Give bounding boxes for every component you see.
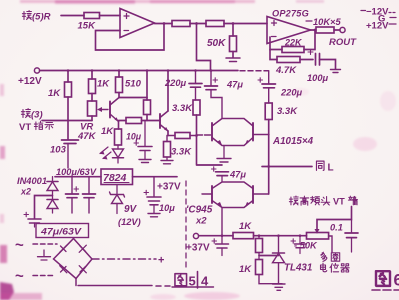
svg-text:3.3K: 3.3K [277,106,298,117]
svg-text:1K: 1K [239,264,252,275]
wire panel divider dashed [185,181,187,268]
resistor R19 1K [256,236,263,256]
label 图5|4 [172,272,214,289]
svg-text:1K: 1K [101,126,114,137]
svg-text:VT: VT [333,197,345,207]
wire input to R1 [61,15,84,17]
capacitor C4 220μ [164,71,202,101]
ground below 10μ [139,160,151,163]
resistor R20 1K [239,256,282,284]
ground below 50K [226,58,240,62]
node AC input lower [15,268,53,285]
wire R8 to 接(3) node [67,97,69,121]
label 9V (12V) [118,204,141,227]
capacitor C5 47μ [205,71,244,119]
node R3-50K junction [232,22,235,25]
resistor R7 4.7K [275,57,313,77]
label 图6 [372,271,399,290]
capacitor C3 10μ [126,121,152,160]
svg-text:x2: x2 [20,187,31,197]
node 同L junction [267,165,270,168]
svg-text:A1015×4: A1015×4 [272,136,314,147]
chassis ground [38,250,51,260]
wire lower pair bottom down [221,208,223,236]
node +12V terminal [18,68,42,87]
svg-text:47μ: 47μ [229,170,246,180]
svg-text:(3): (3) [31,110,43,121]
label 同L [316,161,333,173]
ground below TL431 [273,284,286,290]
wire bridge bottom line [76,279,172,287]
LED D1 [100,145,124,163]
wire +37V line [199,235,233,237]
wire R10 bottom node [119,93,147,98]
transistor pair A1015 upper [212,119,253,146]
diode D3 IN4001 [47,191,58,214]
node AC input upper [15,237,57,254]
wire 100μ to ground [320,60,336,70]
label -12V rail [361,7,395,18]
resistor R18 1K [233,221,254,239]
diode D2 IN4001 [47,177,58,191]
wire pot right stub [329,236,332,252]
capacitor C6 220μ [258,71,303,103]
svg-text:+12V: +12V [366,21,389,32]
capacitor C8 [212,236,229,256]
wire bridge + output [92,255,164,267]
wire junction to 50K [232,24,234,37]
svg-text:+: + [158,255,164,267]
svg-text:IN4001: IN4001 [17,176,47,186]
wire lower pair left stub [202,193,212,195]
wire diode junction to C11 [35,196,53,219]
wire supply top line [55,176,101,178]
wire R19-R20 node to TL431 [259,255,279,257]
wire U1 output [155,23,173,25]
resistor R4 50K [207,36,237,58]
svg-text:1K: 1K [97,79,110,90]
transistor Q2 [160,111,168,131]
TL431 U3 [273,236,313,284]
op-amp U2 OP275G [267,9,311,44]
svg-text:(12V): (12V) [118,217,141,227]
svg-text:4: 4 [201,274,209,289]
wire U2 feedback down [304,30,315,50]
svg-text:- 50K: - 50K [294,241,318,251]
svg-text:'C945: 'C945 [186,205,213,216]
svg-text:103: 103 [50,145,67,156]
wire Q2 collector to rail [167,71,169,112]
svg-text:15K: 15K [78,21,97,32]
regulator 7824 [101,169,133,185]
resistor R3 [206,21,267,27]
svg-text:~: ~ [15,268,24,285]
node R2-R3 junction [195,22,198,25]
svg-text:3.3K: 3.3K [171,147,192,158]
node +37V terminal [186,233,210,253]
wire rail to R8 [67,71,69,83]
resistor R15 3.3K v [164,136,171,161]
label 10K×5 [306,17,341,27]
svg-text:47μ: 47μ [226,80,243,90]
ground below 100μ [331,70,341,73]
label +37V out [157,182,181,193]
ground below C14 [148,214,160,217]
label IN4001 x2 [17,176,47,197]
label +12V rail [366,21,396,32]
wire rail to R9 [91,71,93,80]
resistor R1 15K [78,13,100,32]
label C945 x2 [186,205,213,227]
label 电位器 [321,263,350,272]
node rail junctions [67,69,213,72]
svg-text:100μ: 100μ [307,73,329,83]
svg-text:1K: 1K [239,221,252,232]
svg-text:x2: x2 [195,216,207,227]
wire lower pair right to 同L [253,193,269,195]
wire upper pair bottom to ground [223,146,225,159]
label 多圈 [321,252,340,261]
svg-text:47K: 47K [77,131,97,142]
node U1 out junction [163,22,166,25]
resistor R10 510 [116,77,142,93]
wire U2 output [311,29,317,31]
svg-text:220μ: 220μ [164,78,187,88]
resistor R16 3.3K [172,100,200,115]
svg-text:50K: 50K [207,38,226,49]
svg-text:+12V: +12V [18,76,42,87]
node 接(3) input [21,109,42,121]
svg-text:10μ: 10μ [159,203,175,213]
capacitor C1 100μ [307,50,329,84]
resistor R12 emitter [126,118,160,124]
wire rail to R11 [146,71,148,101]
transistor Q1 [110,98,119,122]
svg-text:L: L [328,163,334,174]
zener D4 9V [110,185,125,214]
wire junction down-jog to +12V rail [197,24,211,71]
svg-text:5: 5 [189,274,196,289]
capacitor C10 [291,236,306,254]
label 接高频头VT端 [289,196,357,206]
capacitor C2 103 [50,121,79,169]
wire R1 to U1 + [100,15,121,17]
svg-text:100μ/63V: 100μ/63V [56,167,97,177]
svg-text:TL431: TL431 [284,263,312,274]
op-amp U1 [120,9,155,38]
resistor R2 [172,21,206,27]
wire upper pair left base [197,134,213,136]
svg-text:10μ: 10μ [126,132,142,142]
wire Q2 emitter down [167,131,169,136]
node input 接(5)R terminal [22,11,50,23]
wire right branch down [268,120,270,195]
svg-text:(5)R: (5)R [32,12,51,23]
wire Q1 emitter node [119,121,127,130]
svg-text:+37V: +37V [157,182,181,193]
wire upper pair right base [253,134,269,136]
svg-text:1K: 1K [48,88,61,99]
svg-text:9V: 9V [124,204,138,215]
capacitor C13 filter [83,177,96,213]
resistor R6 22K [282,38,304,53]
ground below upper pair [217,159,231,163]
svg-text:ROUT: ROUT [329,37,357,48]
svg-text:47μ/63V: 47μ/63V [40,227,83,237]
potentiometer 50K [294,229,329,251]
resistor R17 3.3K [265,103,298,120]
capacitor C11 [24,212,41,227]
svg-text:10K×5: 10K×5 [313,17,341,27]
wire 同L [262,166,312,168]
label 47μ/63V box [36,224,89,238]
svg-text:+37V: +37V [186,243,210,254]
svg-text:0.1: 0.1 [330,223,343,233]
svg-text:6: 6 [394,272,399,290]
resistor R9 1K [89,79,111,94]
resistor R5 10K [316,27,340,33]
capacitor C9 0.1 [330,220,358,253]
node R14-R16 junction [195,134,198,137]
wire 7824 out [133,176,178,178]
capacitor C14 10μ [144,177,175,213]
wire 22K to inverting input [270,37,282,50]
ground below R15 [161,161,173,164]
potentiometer VR 47K [77,94,108,143]
label VT指示 [19,121,54,133]
capacitor C12 filter [66,177,79,213]
wire R16 node down [197,115,223,165]
label 100μ/63V [56,167,97,177]
svg-text:4.7K: 4.7K [275,65,297,76]
svg-text:220μ: 220μ [280,88,303,98]
label A1015×4 [272,136,314,147]
svg-text:3.3K: 3.3K [172,103,193,114]
transistor pair C945 lower [212,182,253,208]
node ROUT terminal [329,27,357,48]
wire VT stub down [317,207,352,233]
label G rail [378,14,396,25]
wire 接(3) to VR bottom [42,120,92,122]
node U2 out junction [314,29,317,32]
wire +12V rail dashed end [240,70,269,72]
resistor R13 1K LED [101,126,122,145]
wire rail to R10 [118,71,120,78]
svg-text:VT: VT [19,122,31,133]
resistor R11 [144,100,151,121]
resistor R8 1K [48,82,72,99]
resistor R14 3.3K h [168,133,197,158]
wire R18 to pot [221,234,307,237]
bridge rectifier [54,239,93,279]
capacitor C7 47μ [212,167,247,182]
svg-text:~: ~ [15,237,24,254]
wire U1 feedback loop [96,24,165,51]
svg-text:OP275G: OP275G [272,9,309,19]
svg-text:510: 510 [125,79,142,90]
wire +12V rail [40,70,238,72]
svg-text:22K: 22K [284,38,303,48]
wire node to 4.7K [270,50,277,60]
